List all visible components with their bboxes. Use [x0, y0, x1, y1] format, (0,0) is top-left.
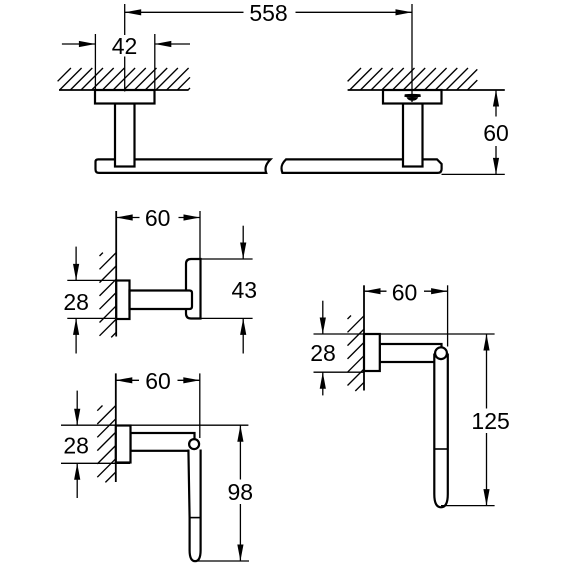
- robe hook wall face line: [115, 211, 117, 337]
- dimension 28 hook top arrowhead: [73, 264, 79, 281]
- dimension 60 spare holder right arrowhead: [431, 288, 448, 294]
- dimension 42 extension line right: [154, 34, 156, 91]
- dimension 60 spare holder right extension line: [447, 285, 449, 346]
- robe hook wall hatch: [100, 253, 117, 338]
- paper holder roll bar: [188, 450, 200, 562]
- dimension 28 spare holder bottom arrowhead: [320, 372, 326, 389]
- dimension 60 towel rail bottom arrowhead: [493, 158, 499, 175]
- dimension 28 hook top extension line: [67, 279, 115, 281]
- dimension 60 hook dimension line: [116, 217, 200, 219]
- dimension 60 hook right arrowhead: [184, 214, 201, 220]
- dimension 42 extension line left: [94, 34, 96, 91]
- towel rail bar left section with break line: [96, 159, 271, 173]
- spare holder arm: [380, 344, 442, 362]
- dimension 43 top extension line: [202, 258, 253, 260]
- dimension 60 spare holder left arrowhead: [364, 288, 381, 294]
- svg-text:42: 42: [112, 33, 138, 59]
- paper holder pivot circle: [189, 439, 199, 449]
- dimension 558 extension line right (post centerline): [411, 4, 413, 102]
- dimension 42 right arrowhead: [155, 41, 172, 47]
- spare holder roll bar: [434, 354, 448, 508]
- dimension 98 bottom extension line: [193, 560, 249, 562]
- dimension 125 bottom extension line: [441, 505, 495, 507]
- paper holder wall flange: [116, 426, 131, 463]
- spare holder wall face line: [363, 285, 365, 390]
- svg-text:43: 43: [232, 277, 258, 303]
- spare holder pivot circle: [435, 347, 447, 359]
- dimension 28 paper holder dimension line tails: [76, 391, 78, 498]
- paper holder wall hatch: [97, 406, 116, 483]
- dimension 28 paper holder bottom extension line: [61, 462, 130, 464]
- svg-text:60: 60: [392, 280, 418, 306]
- dimension 60 hook right extension line: [199, 211, 201, 258]
- robe hook arm: [130, 291, 193, 310]
- dimension 98 bottom arrowhead: [237, 545, 243, 562]
- spare holder roll bar seam tick: [434, 448, 448, 450]
- towel rail right post: [403, 104, 423, 167]
- towel rail left wall hatch: [58, 68, 190, 90]
- towel rail right wall surface line: [348, 89, 505, 91]
- dimension 60 paper holder right arrowhead: [183, 377, 200, 383]
- dimension 60 towel rail bottom extension line: [442, 173, 505, 175]
- svg-text:28: 28: [63, 289, 89, 315]
- paper holder wall face line: [115, 373, 117, 482]
- svg-text:28: 28: [310, 340, 336, 366]
- dimension 60 towel rail top arrowhead: [493, 90, 499, 107]
- dimension 42 left arrowhead: [79, 41, 96, 47]
- spare holder wall flange: [364, 334, 380, 371]
- dimension 43 top arrowhead: [240, 243, 246, 260]
- dimension 558 left arrowhead: [125, 9, 142, 15]
- dimension 60 paper holder right extension line: [199, 373, 201, 438]
- dimension 60 paper holder left arrowhead: [116, 377, 133, 383]
- dimension 98 top arrowhead: [237, 425, 243, 442]
- svg-text:60: 60: [483, 120, 509, 146]
- dimension 125 bottom arrowhead: [483, 489, 489, 506]
- GROHE logo mark on right flange: [404, 94, 420, 101]
- dimension 558 dimension line: [125, 11, 412, 13]
- dimension 28 hook bottom arrowhead: [73, 318, 79, 335]
- dimension 28 paper holder bottom arrowhead: [74, 463, 80, 480]
- dimension 43 dimension line tails: [242, 226, 244, 354]
- dimension 60 hook left arrowhead: [116, 214, 133, 220]
- towel rail right wall hatch: [348, 68, 478, 90]
- dimension 28 spare holder bottom extension line: [314, 371, 365, 373]
- svg-text:558: 558: [249, 0, 287, 26]
- dimension 60 spare holder dimension line: [364, 290, 448, 292]
- dimension 558 right arrowhead: [396, 9, 413, 15]
- dimension 28 hook bottom extension line: [67, 317, 115, 319]
- dimension 558 extension line left (post centerline): [124, 4, 126, 92]
- towel rail left post: [115, 104, 135, 167]
- dimension 60 paper holder dimension line: [116, 379, 200, 381]
- dimension 28 paper holder top arrowhead: [74, 409, 80, 426]
- towel rail bar right section with break line: [281, 159, 441, 173]
- svg-text:28: 28: [63, 433, 89, 459]
- spare holder wall hatch: [348, 316, 365, 392]
- spare holder shared top extension line: [314, 333, 495, 335]
- dimension 60 towel rail dimension line: [495, 90, 497, 174]
- robe hook wall flange: [116, 281, 129, 320]
- towel rail left wall surface line: [59, 89, 189, 91]
- svg-text:60: 60: [145, 368, 171, 394]
- paper holder roll bar seam tick: [190, 517, 201, 519]
- paper holder shared top extension line: [61, 424, 248, 426]
- dimension 28 hook dimension line tails: [75, 247, 77, 354]
- towel rail left wall flange: [95, 90, 155, 104]
- towel rail right wall flange: [383, 90, 442, 104]
- svg-text:60: 60: [145, 205, 171, 231]
- dimension 98 dimension line: [239, 425, 241, 561]
- paper holder arm: [131, 433, 195, 451]
- dimension 28 spare holder top arrowhead: [320, 318, 326, 335]
- robe hook plate: [186, 259, 201, 319]
- dimension 28 spare holder dimension line tails: [322, 301, 324, 396]
- dimension 125 top arrowhead: [483, 334, 489, 351]
- dimension 125 dimension line: [486, 334, 488, 506]
- dimension 43 bottom arrowhead: [240, 318, 246, 335]
- dimension 42 dimension line with outside tails: [62, 43, 190, 45]
- dimension 43 bottom extension line: [202, 317, 253, 319]
- svg-text:98: 98: [228, 479, 254, 505]
- svg-text:125: 125: [471, 408, 509, 434]
